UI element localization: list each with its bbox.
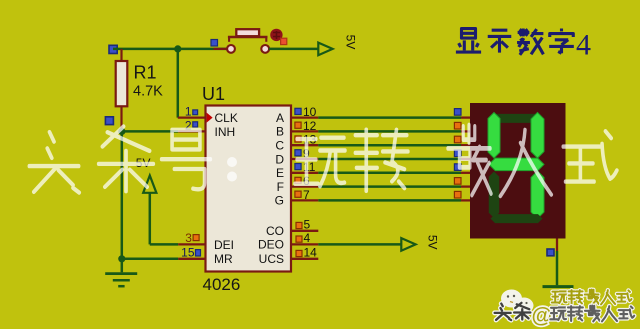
display pin stub	[461, 172, 470, 174]
svg-text:CO: CO	[266, 224, 284, 238]
svg-text:12: 12	[303, 119, 317, 133]
svg-text:D: D	[275, 152, 284, 166]
segment A (off)	[491, 114, 543, 123]
wire	[122, 130, 178, 133]
svg-text:15: 15	[181, 246, 195, 260]
junction R1 bottom	[118, 128, 125, 135]
node marker below display	[547, 249, 554, 256]
watermark 头条号：玩转嵌入式	[29, 125, 617, 196]
ground right	[543, 285, 574, 288]
wire	[178, 48, 227, 51]
wire	[318, 116, 461, 119]
power terminal 5V right	[401, 238, 415, 251]
display pin stub	[461, 116, 470, 118]
wire	[121, 259, 124, 273]
wire	[121, 131, 124, 258]
svg-text:R1: R1	[134, 63, 157, 83]
svg-text:5V: 5V	[426, 235, 440, 250]
ground left	[105, 274, 137, 287]
watermark small 玩转嵌入式 upper	[552, 291, 567, 303]
svg-text:10: 10	[303, 105, 317, 119]
svg-text:4: 4	[576, 29, 591, 62]
svg-text:E: E	[276, 166, 284, 180]
svg-text:1: 1	[185, 105, 192, 119]
pin DEI stub	[178, 243, 205, 245]
svg-text:F: F	[277, 180, 284, 194]
svg-text:U1: U1	[202, 84, 225, 104]
svg-text:4026: 4026	[203, 275, 241, 294]
wire	[318, 144, 461, 147]
pin 9 stub	[291, 158, 318, 160]
svg-text:C: C	[275, 139, 284, 153]
pin 7 stub	[291, 199, 318, 201]
IC U1 4026	[206, 106, 292, 272]
svg-text:B: B	[276, 125, 284, 139]
node pad top-left	[109, 45, 117, 53]
display pin stub	[461, 199, 470, 201]
wire	[318, 199, 461, 202]
wire	[318, 130, 461, 133]
display pin stub	[461, 144, 470, 146]
junction lower	[118, 255, 125, 262]
pin 14 stub	[291, 258, 318, 260]
wire	[122, 258, 178, 261]
svg-text:5V: 5V	[344, 35, 358, 50]
segment G (on)	[489, 158, 544, 171]
title 显示数字4	[456, 29, 481, 53]
push button SW1	[214, 29, 285, 53]
power terminal 5V left	[143, 176, 178, 245]
svg-text:3: 3	[185, 231, 192, 245]
display pin stub	[461, 185, 470, 187]
wire	[318, 185, 461, 188]
svg-text:5: 5	[304, 218, 311, 232]
svg-text:14: 14	[304, 246, 318, 260]
7-segment display body	[470, 103, 566, 239]
pin 5 stub	[291, 230, 318, 232]
segment B (on)	[531, 113, 544, 159]
segment C (on)	[531, 171, 544, 219]
pin 11 stub	[291, 172, 318, 174]
junction top	[174, 45, 181, 52]
segment F (on)	[488, 113, 500, 159]
wire	[318, 158, 461, 161]
display pin stub	[461, 130, 470, 132]
svg-text:UCS: UCS	[259, 252, 284, 266]
pin 6 stub	[291, 185, 318, 187]
power terminal 5V top	[318, 43, 332, 56]
svg-text:MR: MR	[214, 252, 233, 266]
svg-text:INH: INH	[215, 125, 236, 139]
svg-text:G: G	[275, 194, 284, 208]
svg-text:DEI: DEI	[214, 238, 234, 252]
svg-text:CLK: CLK	[215, 111, 238, 125]
pin 4 stub	[291, 243, 318, 245]
wire	[269, 48, 319, 51]
svg-text:A: A	[276, 111, 284, 125]
wire	[318, 243, 401, 246]
wire	[556, 251, 559, 285]
svg-text:7: 7	[303, 188, 310, 202]
pin CLK stub	[178, 116, 206, 118]
svg-text:4: 4	[304, 231, 311, 245]
pin 13 stub	[291, 144, 318, 146]
node marker	[211, 40, 218, 47]
display common pin	[556, 239, 558, 252]
pin 10 stub	[291, 116, 318, 118]
svg-text:DEO: DEO	[258, 238, 284, 252]
wire	[318, 172, 461, 175]
node pad below R1	[105, 117, 113, 125]
clock wedge pin1	[207, 113, 213, 123]
pin 12 stub	[291, 130, 318, 132]
svg-text:4.7K: 4.7K	[133, 84, 163, 100]
wire	[177, 49, 180, 118]
segment E (off)	[489, 172, 500, 219]
resistor R1	[116, 49, 128, 131]
watermark 头条@玩转嵌入式 lower	[495, 304, 511, 320]
button actuator icon	[270, 29, 287, 45]
segment D (off)	[491, 214, 543, 223]
display pin stub	[461, 158, 470, 160]
wire	[113, 48, 178, 51]
logo mascot	[501, 290, 534, 314]
